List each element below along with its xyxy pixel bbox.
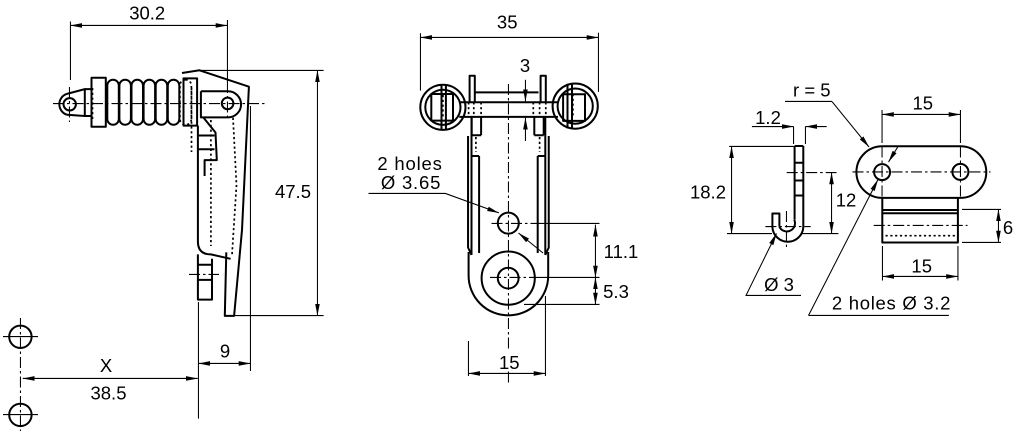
svg-text:X: X <box>100 355 112 376</box>
svg-text:5.3: 5.3 <box>603 281 629 302</box>
svg-text:1.2: 1.2 <box>755 107 781 128</box>
svg-text:15: 15 <box>913 93 934 114</box>
svg-text:Ø 3: Ø 3 <box>764 274 794 295</box>
svg-text:35: 35 <box>497 12 518 33</box>
svg-text:r = 5: r = 5 <box>793 80 831 101</box>
svg-text:Ø 3.65: Ø 3.65 <box>381 172 441 193</box>
svg-text:18.2: 18.2 <box>690 182 726 203</box>
svg-text:9: 9 <box>220 341 230 362</box>
svg-text:6: 6 <box>1003 217 1013 238</box>
svg-text:15: 15 <box>911 256 932 277</box>
svg-text:11.1: 11.1 <box>604 241 639 262</box>
svg-text:12: 12 <box>836 190 857 211</box>
svg-text:3: 3 <box>520 55 530 76</box>
svg-text:15: 15 <box>499 352 520 373</box>
svg-text:2 holes Ø 3.2: 2 holes Ø 3.2 <box>832 292 951 313</box>
svg-text:30.2: 30.2 <box>129 3 165 24</box>
svg-text:38.5: 38.5 <box>90 383 126 404</box>
svg-text:47.5: 47.5 <box>275 181 311 202</box>
